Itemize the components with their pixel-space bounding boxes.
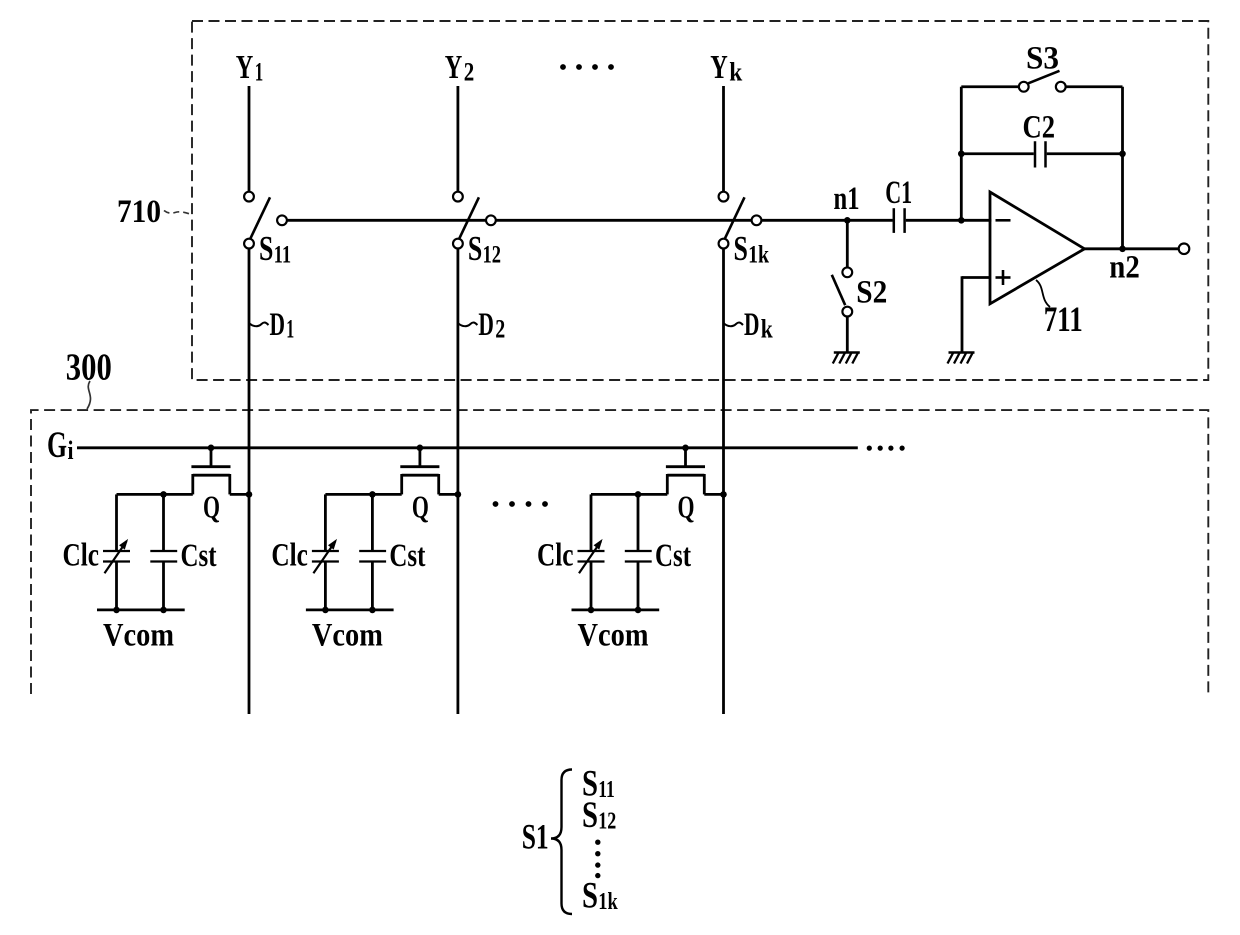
capacitor C2 branch xyxy=(958,141,1126,167)
label Dk with tilde leader xyxy=(724,307,773,344)
op-amp U711 xyxy=(990,192,1085,304)
svg-text:C1: C1 xyxy=(885,175,912,211)
node Y1 label xyxy=(236,49,263,87)
dots end of Gi line xyxy=(867,446,905,451)
switch S11 xyxy=(244,192,287,249)
wire plus input xyxy=(962,276,990,352)
label 300 with leader xyxy=(66,347,112,410)
svg-text:C2: C2 xyxy=(1023,110,1056,146)
svg-text:Cst: Cst xyxy=(181,538,217,574)
svg-text:1k: 1k xyxy=(598,889,618,915)
wire D2 data line xyxy=(456,249,459,714)
wire feedback left vertical xyxy=(960,87,963,221)
svg-text:n2: n2 xyxy=(1109,250,1140,286)
switch S3 xyxy=(961,71,1122,92)
switch S2 xyxy=(832,223,852,352)
Vcom rail (cell 2) xyxy=(306,607,394,614)
svg-text:n1: n1 xyxy=(834,181,860,217)
svg-text:D: D xyxy=(744,307,760,343)
ground below S2 xyxy=(833,353,860,364)
label Q (cell 2) xyxy=(412,489,429,525)
wire bus S1k to C1 xyxy=(762,219,893,222)
svg-text:Cst: Cst xyxy=(655,538,691,574)
label S3 xyxy=(1026,41,1059,77)
svg-text:G: G xyxy=(47,425,67,466)
wire C1 to op-amp xyxy=(906,219,992,222)
svg-text:1: 1 xyxy=(286,315,294,344)
node Yk label xyxy=(710,49,742,87)
svg-text:S: S xyxy=(468,229,482,268)
dashed box 300 (pixel array block, open bottom) xyxy=(31,410,1208,694)
svg-text:S: S xyxy=(582,795,598,836)
label S2 xyxy=(856,275,887,311)
svg-text:D: D xyxy=(478,307,494,343)
svg-text:S: S xyxy=(582,876,598,917)
wire Y2 vertical xyxy=(456,86,459,192)
label S1k in list xyxy=(582,876,618,917)
svg-text:k: k xyxy=(761,315,773,344)
transistor Q (cell 2) xyxy=(325,445,461,498)
svg-text:Y: Y xyxy=(236,49,254,86)
wire D1 data line xyxy=(248,249,251,714)
capacitor Cst (cell 2) xyxy=(359,494,386,610)
dots between Y2 and Yk xyxy=(560,64,614,70)
label Clc (cell 3) xyxy=(537,538,574,574)
svg-text:12: 12 xyxy=(598,809,616,835)
wire bus S11 to S12 xyxy=(287,219,486,222)
wire Y1 vertical xyxy=(248,86,251,192)
label S11 in list xyxy=(582,764,615,805)
wire Gi gate line xyxy=(77,446,858,449)
label 710 with leader xyxy=(117,194,191,230)
label S11 xyxy=(259,229,291,269)
svg-text:11: 11 xyxy=(274,242,292,269)
svg-text:2: 2 xyxy=(495,315,505,344)
svg-text:k: k xyxy=(729,58,742,87)
switch S1k xyxy=(719,192,762,249)
svg-text:S: S xyxy=(259,229,273,268)
svg-text:Clc: Clc xyxy=(63,538,100,574)
node Y2 label xyxy=(445,49,475,87)
label Clc (cell 1) xyxy=(63,538,100,574)
svg-text:S1: S1 xyxy=(522,817,549,857)
transistor Q (cell 3) xyxy=(591,445,727,498)
svg-text:D: D xyxy=(270,307,286,343)
capacitor Cst (cell 1) xyxy=(150,494,177,610)
wire Yk vertical xyxy=(722,86,725,192)
capacitor Clc variable (cell 1) xyxy=(103,494,130,610)
switch S12 xyxy=(453,192,496,249)
label Q (cell 1) xyxy=(203,489,220,525)
dots between cell 2 and cell 3 xyxy=(493,501,548,507)
label Vcom (cell 3) xyxy=(578,617,649,653)
label C2 xyxy=(1023,110,1056,146)
wire Dk data line xyxy=(722,249,725,714)
ground below plus input xyxy=(948,353,975,364)
node n2 and output xyxy=(1085,246,1179,286)
svg-text:11: 11 xyxy=(598,777,615,803)
svg-text:S2: S2 xyxy=(856,275,887,311)
node n1 xyxy=(834,181,860,224)
label Vcom (cell 1) xyxy=(103,617,174,653)
Vcom rail (cell 1) xyxy=(97,607,185,614)
svg-text:Clc: Clc xyxy=(271,538,308,574)
svg-text:S3: S3 xyxy=(1026,41,1059,77)
label S12 in list xyxy=(582,795,616,836)
svg-text:S: S xyxy=(734,229,748,268)
svg-text:i: i xyxy=(68,436,74,465)
svg-text:711: 711 xyxy=(1044,299,1083,339)
vertical dots in S1 list xyxy=(595,840,600,879)
svg-text:1k: 1k xyxy=(748,242,769,269)
transistor Q (cell 1) xyxy=(117,445,253,498)
wire bus S12 to S1k xyxy=(496,219,751,222)
node at minus input / feedback tap xyxy=(958,217,965,224)
svg-text:1: 1 xyxy=(255,58,263,87)
svg-text:Q: Q xyxy=(203,489,220,525)
svg-text:710: 710 xyxy=(117,194,161,230)
label Clc (cell 2) xyxy=(271,538,308,574)
svg-text:Vcom: Vcom xyxy=(578,617,649,653)
label 711 with leader xyxy=(1036,280,1083,339)
svg-text:Vcom: Vcom xyxy=(312,617,383,653)
label D2 with tilde leader xyxy=(458,307,505,344)
svg-text:Clc: Clc xyxy=(537,538,574,574)
label Cst (cell 3) xyxy=(655,538,691,574)
svg-text:Y: Y xyxy=(710,49,728,86)
svg-text:Cst: Cst xyxy=(389,538,425,574)
brace for S1 group xyxy=(551,770,572,915)
capacitor Clc variable (cell 2) xyxy=(312,494,339,610)
label S12 xyxy=(468,229,501,269)
label Cst (cell 1) xyxy=(181,538,217,574)
label D1 with tilde leader xyxy=(250,307,295,344)
label Vcom (cell 2) xyxy=(312,617,383,653)
label S1k xyxy=(734,229,770,269)
svg-text:Vcom: Vcom xyxy=(103,617,174,653)
label Q (cell 3) xyxy=(678,489,695,525)
dashed box 710 (column selector block) xyxy=(192,21,1208,380)
label S1 (switch group) xyxy=(522,817,549,857)
Vcom rail (cell 3) xyxy=(572,607,660,614)
svg-text:2: 2 xyxy=(464,58,475,87)
svg-text:12: 12 xyxy=(483,242,502,269)
capacitor C1 xyxy=(885,175,912,233)
label Gi gate line xyxy=(47,425,74,466)
capacitor Cst (cell 3) xyxy=(625,494,652,610)
label Cst (cell 2) xyxy=(389,538,425,574)
wire feedback right vertical xyxy=(1121,87,1124,249)
svg-text:Q: Q xyxy=(412,489,429,525)
output terminal circle xyxy=(1179,244,1190,255)
capacitor Clc variable (cell 3) xyxy=(578,494,605,610)
svg-text:Y: Y xyxy=(445,49,463,86)
svg-text:Q: Q xyxy=(678,489,695,525)
